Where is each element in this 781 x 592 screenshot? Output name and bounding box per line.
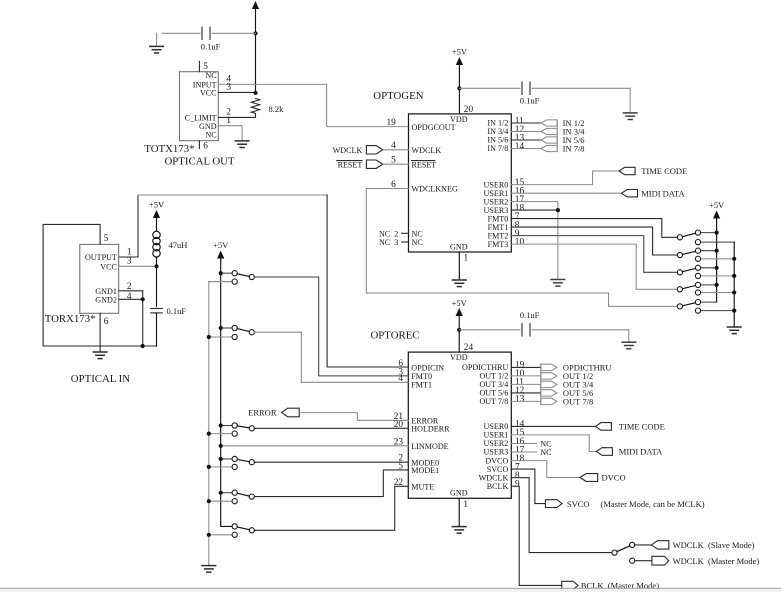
wire pin 13 to IN 5/6 flag bbox=[511, 139, 541, 141]
svg-text:4: 4 bbox=[127, 292, 132, 302]
wire BCLK to flag bbox=[511, 486, 561, 585]
wire FMT3 to switch row 4 bbox=[511, 244, 677, 289]
junction GND2 bbox=[141, 297, 145, 301]
ground (TORX) bbox=[99, 346, 101, 352]
switch S1 (right bank row 1) bbox=[701, 232, 717, 234]
ground (TOTX GND) bbox=[235, 141, 249, 148]
wire GND pin to ground bbox=[218, 126, 242, 141]
wire pin 12 to IN 3/4 flag bbox=[511, 131, 541, 133]
ground (OPTOGEN 0.1uF) bbox=[623, 113, 637, 120]
svg-text:WDCLK (Master Mode): WDCLK (Master Mode) bbox=[673, 556, 760, 566]
svg-text:OPTICAL OUT: OPTICAL OUT bbox=[165, 155, 235, 167]
svg-text:20: 20 bbox=[464, 105, 474, 115]
power +5V (OPTOGEN VDD) bbox=[456, 57, 463, 65]
wire +5V rail (left bank) bbox=[221, 259, 232, 527]
wire +5V to VDD pin 24 bbox=[458, 316, 460, 352]
svg-text:MUTE: MUTE bbox=[411, 482, 434, 491]
power +5V (right switch bank) bbox=[713, 211, 720, 219]
wire USER2 NC stub bbox=[511, 443, 536, 445]
svg-text:1: 1 bbox=[464, 254, 469, 264]
wire USER2 to ground rail bbox=[511, 202, 558, 279]
svg-text:0.1uF: 0.1uF bbox=[201, 42, 221, 52]
wire +5V to inductor bbox=[156, 218, 158, 231]
switch S5 (right bank row 5) bbox=[701, 301, 717, 303]
svg-text:+5V: +5V bbox=[452, 298, 468, 308]
flag BCLK (Master Mode) bbox=[562, 581, 578, 589]
capacitor C (0.1uF, optical out) wires bbox=[162, 32, 200, 34]
svg-text:TIME CODE: TIME CODE bbox=[619, 422, 665, 432]
svg-text:+5V: +5V bbox=[709, 200, 725, 210]
wire C_LIMIT to resistor bbox=[218, 116, 255, 118]
flag IN 7/8 bbox=[541, 145, 557, 151]
wire USER0 to TIME CODE flag (OPTOREC) bbox=[511, 425, 595, 427]
svg-text:+5V: +5V bbox=[149, 200, 165, 210]
flag TIME CODE (OPTOREC) bbox=[595, 423, 611, 431]
switch S7 (left bank row 2) bbox=[221, 327, 232, 329]
wire pin to OUT 1/2 flag bbox=[511, 375, 541, 377]
wire junction to capacitor bbox=[156, 266, 158, 306]
pin 6 stub (TOTX) bbox=[198, 141, 200, 149]
svg-text:OPTOGEN: OPTOGEN bbox=[373, 90, 423, 102]
bus tie bar for OUT flags bbox=[540, 364, 542, 404]
svg-text:GND: GND bbox=[450, 489, 468, 498]
wire FMT2 to switch row 3 bbox=[511, 236, 677, 273]
IC U1 OPTOGEN body bbox=[409, 114, 512, 252]
svg-text:OPTOREC: OPTOREC bbox=[371, 329, 420, 341]
junction ground wire bbox=[141, 344, 145, 348]
flag MIDI DATA (OPTOREC) bbox=[596, 448, 612, 456]
svg-text:WDCLK: WDCLK bbox=[412, 146, 442, 155]
wire USER3 NC stub bbox=[511, 451, 536, 453]
junction 0.1uF/+5V bbox=[253, 31, 257, 35]
switch S8 (left bank row 3) bbox=[221, 425, 232, 427]
svg-text:MODE1: MODE1 bbox=[411, 466, 439, 475]
flag IN 1/2 bbox=[541, 120, 557, 126]
svg-text:FMT1: FMT1 bbox=[411, 380, 432, 389]
svg-text:IN 7/8: IN 7/8 bbox=[487, 144, 508, 153]
wire FMT0 to switch row 1 bbox=[511, 219, 677, 238]
wire inductor to VCC junction bbox=[156, 257, 158, 266]
power +5V (top, TOTX supply) bbox=[252, 1, 259, 9]
capacitor 0.1uF (OPTOGEN) wires bbox=[459, 87, 520, 89]
wire ground rail (left bank) bbox=[209, 282, 235, 566]
wire switch to WDCLK slave flag bbox=[635, 544, 652, 546]
wire GND1/GND2 down to ground wire bbox=[142, 291, 144, 346]
svg-text:NC: NC bbox=[412, 238, 423, 247]
flag IN 5/6 bbox=[541, 137, 557, 143]
svg-text:FMT3: FMT3 bbox=[488, 240, 509, 249]
flag WDCLK input bbox=[366, 146, 382, 154]
svg-text:TORX173*: TORX173* bbox=[45, 313, 96, 325]
svg-text:13: 13 bbox=[515, 395, 525, 405]
IC TORX173 body bbox=[80, 244, 119, 313]
svg-text:WDCLK (Slave Mode): WDCLK (Slave Mode) bbox=[673, 540, 755, 550]
capacitor 0.1uF (OPTOREC) plates bbox=[521, 324, 523, 336]
wire switch row2 to OPTOREC FMT1 bbox=[254, 332, 408, 382]
svg-text:1: 1 bbox=[226, 116, 231, 126]
ground (OPTOGEN GND) bbox=[453, 280, 467, 287]
wire MUTE to switch row 6 bbox=[254, 486, 408, 530]
svg-text:6: 6 bbox=[104, 317, 109, 327]
resistor R 8.2k bbox=[251, 99, 259, 114]
pin 1 stub (OPTOREC GND) bbox=[458, 498, 460, 526]
wire capacitor to ground wire bbox=[156, 313, 158, 346]
svg-text:MIDI DATA: MIDI DATA bbox=[641, 189, 685, 199]
wire USER1 to MIDI DATA flag bbox=[511, 192, 621, 194]
wire +5V rail down to VCC junction bbox=[255, 8, 257, 92]
pin 5 stub (TOTX) bbox=[198, 62, 200, 72]
switch S9 (left bank row 4) bbox=[221, 458, 232, 460]
wire INPUT to OPDGCOUT (net) bbox=[218, 84, 408, 126]
wire DVCO to flag bbox=[511, 461, 580, 478]
flag TIME CODE (OPTOGEN) bbox=[619, 167, 635, 174]
wire pin to OUT 5/6 flag bbox=[511, 392, 541, 394]
capacitor 0.1uF (OPTOREC) wires bbox=[459, 329, 520, 331]
svg-text:6: 6 bbox=[203, 141, 208, 151]
wire ground rail (right bank) bbox=[733, 242, 735, 327]
wire MODE1 to switch row 5 bbox=[254, 470, 408, 497]
wire +5V rail (right bank) bbox=[716, 219, 718, 303]
junction USER2/USER3 bbox=[556, 208, 560, 212]
ground (OPTOREC GND) bbox=[452, 527, 466, 534]
wire VCC to +5V rail bbox=[218, 91, 255, 93]
IC TOTX173 body bbox=[180, 72, 219, 141]
switch S6 (left bank row 1) bbox=[221, 272, 232, 274]
flag OUT 5/6 bbox=[541, 390, 557, 396]
svg-text:(Master Mode, can be MCLK): (Master Mode, can be MCLK) bbox=[601, 499, 705, 509]
wire WDCLKNEG to switch row (long run) bbox=[366, 189, 677, 307]
ground (USER2/USER3) bbox=[551, 280, 565, 287]
svg-text:OPTICAL IN: OPTICAL IN bbox=[71, 373, 130, 385]
svg-text:4: 4 bbox=[391, 141, 396, 151]
wire USER0 to TIME CODE flag bbox=[511, 171, 619, 185]
wire LINMODE to +5V rail bbox=[221, 445, 409, 447]
wire GND1 bbox=[119, 290, 143, 292]
svg-text:NC 2: NC 2 bbox=[379, 229, 398, 238]
wire TORX OUTPUT to OPDICIN (long net) bbox=[119, 195, 138, 257]
svg-text:SVCO: SVCO bbox=[567, 499, 590, 509]
svg-text:10: 10 bbox=[515, 237, 525, 247]
wire switch row1 to OPTOREC FMT0 bbox=[254, 277, 408, 376]
svg-text:NC: NC bbox=[412, 229, 423, 238]
wire WDCLK to mode switch bbox=[511, 478, 612, 553]
flag OUT 7/8 bbox=[541, 398, 557, 404]
wire pin to OPDICTHRU flag bbox=[511, 366, 541, 368]
junction VDD/0.1uF bbox=[457, 86, 461, 90]
svg-text:OUTPUT: OUTPUT bbox=[85, 253, 117, 262]
flag IN 3/4 bbox=[541, 128, 557, 134]
wire +5V to VDD pin 20 bbox=[458, 65, 460, 114]
svg-text:DVCO: DVCO bbox=[602, 473, 626, 483]
svg-text:IN 7/8: IN 7/8 bbox=[563, 144, 585, 154]
svg-text:OUT 7/8: OUT 7/8 bbox=[563, 397, 593, 407]
wire FMT1 to switch row 2 bbox=[511, 227, 677, 255]
junction VCC/resistor bbox=[253, 91, 257, 95]
svg-text:NC 3: NC 3 bbox=[379, 238, 398, 247]
switch S10 (left bank row 5) bbox=[221, 492, 232, 494]
svg-text:LINMODE: LINMODE bbox=[411, 442, 448, 451]
svg-text:OUT 7/8: OUT 7/8 bbox=[479, 397, 508, 406]
svg-text:3: 3 bbox=[226, 83, 231, 93]
svg-text:+5V: +5V bbox=[452, 47, 468, 57]
svg-text:3: 3 bbox=[127, 257, 132, 267]
switch S2 (right bank row 2) bbox=[701, 250, 717, 252]
power +5V (OPTOREC VDD) bbox=[456, 308, 463, 316]
wire WDCLK flag to pin bbox=[383, 149, 409, 151]
capacitor 0.1uF (OPTOGEN) plates bbox=[521, 82, 523, 94]
svg-text:VCC: VCC bbox=[100, 262, 117, 271]
svg-text:GND2: GND2 bbox=[95, 295, 117, 304]
IC U2 OPTOREC body bbox=[408, 352, 511, 498]
svg-text:47uH: 47uH bbox=[169, 240, 188, 250]
pin 1 stub (OPTOGEN GND) bbox=[458, 252, 460, 280]
flag RESET input bbox=[366, 160, 382, 168]
flag OUT 1/2 bbox=[541, 373, 557, 379]
junction VDD/0.1uF (OPTOREC) bbox=[457, 328, 461, 332]
svg-text:RESET: RESET bbox=[412, 160, 437, 169]
capacitor C 0.1uF plates bbox=[201, 27, 203, 39]
flag DVCO bbox=[580, 474, 598, 482]
page border line bbox=[0, 587, 781, 589]
wire pin 11 to IN 1/2 flag bbox=[511, 122, 541, 124]
svg-text:8.2k: 8.2k bbox=[269, 104, 285, 114]
wire ERROR flag to pin 21 bbox=[299, 413, 408, 421]
wire switch to WDCLK master flag bbox=[635, 560, 652, 562]
ground (left bank) bbox=[202, 566, 216, 573]
svg-text:24: 24 bbox=[464, 343, 474, 353]
wire HOLDERR to switch row 3 bbox=[254, 427, 408, 429]
svg-text:23: 23 bbox=[394, 437, 404, 447]
wire pin to OUT 7/8 flag bbox=[511, 400, 541, 402]
pin 5 loop to ground (TORX shield) bbox=[43, 224, 156, 346]
svg-text:MIDI DATA: MIDI DATA bbox=[619, 447, 663, 457]
wire RESET flag to pin bbox=[383, 163, 409, 165]
wire VCC to junction bbox=[119, 265, 157, 267]
ground (top-left) bbox=[156, 33, 158, 46]
svg-text:14: 14 bbox=[515, 142, 525, 152]
svg-text:TIME CODE: TIME CODE bbox=[641, 166, 687, 176]
svg-text:BCLK: BCLK bbox=[487, 482, 509, 491]
junction LINMODE/+5V rail bbox=[219, 444, 223, 448]
wire USER1 to MIDI DATA flag (OPTOREC) bbox=[511, 435, 596, 452]
svg-text:WDCLK: WDCLK bbox=[333, 146, 363, 155]
switch S11 WDCLK mode bbox=[612, 550, 617, 555]
switch S11 (left bank row 6) bbox=[209, 534, 232, 536]
wire USER3 to ground rail bbox=[511, 209, 558, 211]
svg-text:GND: GND bbox=[450, 242, 468, 251]
svg-text:1: 1 bbox=[463, 500, 468, 510]
bus tie bar for IN flags bbox=[556, 120, 558, 152]
svg-text:19: 19 bbox=[387, 118, 397, 128]
flag OUT 3/4 bbox=[541, 381, 557, 387]
svg-text:0.1uF: 0.1uF bbox=[520, 310, 540, 320]
svg-text:NC: NC bbox=[205, 130, 216, 139]
power +5V (TORX supply) bbox=[153, 210, 160, 218]
junction VCC/L/C (TORX) bbox=[154, 264, 158, 268]
wire MODE0 to switch row 4 bbox=[254, 461, 408, 463]
svg-text:VCC: VCC bbox=[200, 89, 217, 98]
flag SVCO bbox=[545, 500, 562, 508]
wire SVCO to flag bbox=[511, 469, 545, 504]
inductor L 47uH bbox=[153, 231, 160, 238]
svg-text:WDCLKNEG: WDCLKNEG bbox=[412, 185, 458, 194]
svg-text:TOTX173*: TOTX173* bbox=[144, 143, 194, 155]
svg-text:RESET: RESET bbox=[338, 160, 363, 169]
switch S3 (right bank row 3) bbox=[701, 267, 717, 269]
svg-text:ERROR: ERROR bbox=[248, 408, 277, 418]
flag WDCLK (Master Mode) bbox=[652, 556, 669, 565]
flag WDCLK (Slave Mode) bbox=[651, 541, 668, 549]
svg-text:HOLDERR: HOLDERR bbox=[411, 424, 450, 433]
svg-text:+5V: +5V bbox=[213, 240, 229, 250]
svg-text:VDD: VDD bbox=[450, 353, 468, 362]
wire GND2 bbox=[119, 298, 143, 300]
flag MIDI DATA (OPTOGEN) bbox=[622, 190, 638, 197]
svg-text:0.1uF: 0.1uF bbox=[167, 306, 187, 316]
flag ERROR bbox=[282, 408, 300, 417]
pin 6 stub (TORX) bbox=[99, 313, 101, 346]
wire pin to OUT 3/4 flag bbox=[511, 383, 541, 385]
capacitor 0.1uF (TORX) plates bbox=[151, 308, 163, 310]
wire pin 14 to IN 7/8 flag bbox=[511, 148, 541, 150]
svg-text:5: 5 bbox=[391, 156, 396, 166]
ground (right bank) bbox=[727, 327, 741, 334]
svg-text:NC: NC bbox=[540, 448, 551, 457]
power +5V (left switch bank) bbox=[217, 251, 224, 259]
svg-text:OPDGCOUT: OPDGCOUT bbox=[412, 123, 456, 132]
svg-text:5: 5 bbox=[104, 234, 109, 244]
switch S4 (right bank row 4) bbox=[701, 284, 717, 286]
svg-text:0.1uF: 0.1uF bbox=[520, 95, 540, 105]
ground (OPTOREC 0.1uF) bbox=[622, 342, 636, 349]
svg-text:NC: NC bbox=[205, 71, 216, 80]
flag OPDICTHRU bbox=[541, 364, 557, 370]
